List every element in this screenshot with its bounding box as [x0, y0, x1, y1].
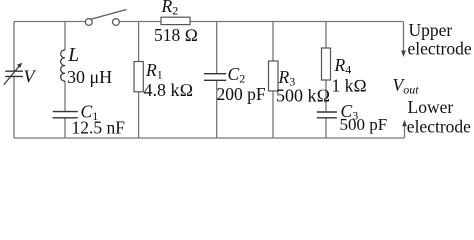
svg-text:Lower: Lower [408, 97, 454, 117]
svg-text:R1: R1 [145, 60, 163, 82]
svg-text:R2: R2 [161, 0, 179, 18]
svg-text:L: L [67, 45, 79, 66]
svg-text:4.8 kΩ: 4.8 kΩ [144, 80, 194, 100]
svg-text:1 kΩ: 1 kΩ [332, 75, 367, 95]
svg-text:12.5 nF: 12.5 nF [72, 118, 126, 138]
svg-text:Vout: Vout [393, 75, 420, 97]
svg-text:500 kΩ: 500 kΩ [276, 85, 330, 105]
svg-text:electrode: electrode [407, 116, 471, 136]
svg-text:200 pF: 200 pF [217, 84, 266, 104]
svg-text:518 Ω: 518 Ω [154, 25, 198, 45]
svg-text:30 μH: 30 μH [67, 67, 112, 87]
svg-text:R4: R4 [334, 55, 352, 77]
svg-text:electrode: electrode [408, 39, 472, 59]
svg-text:Upper: Upper [409, 20, 453, 40]
svg-text:V: V [24, 67, 37, 87]
svg-text:500 pF: 500 pF [340, 115, 388, 134]
svg-text:C2: C2 [228, 64, 246, 86]
